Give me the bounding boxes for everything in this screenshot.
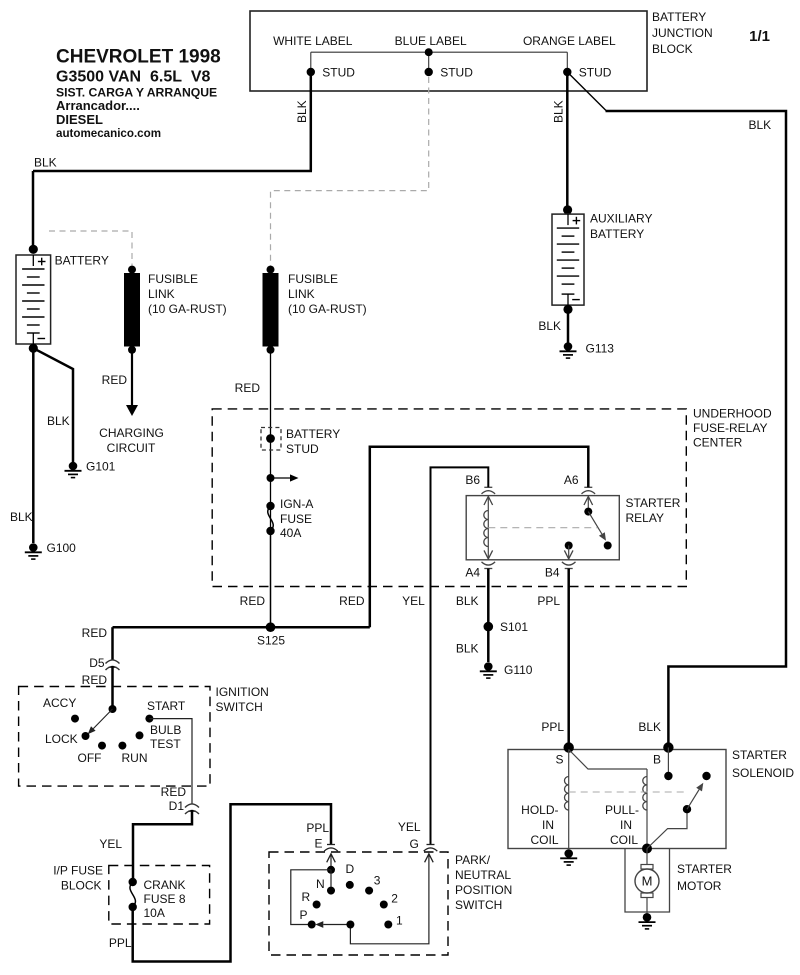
svg-text:SWITCH: SWITCH — [455, 898, 502, 912]
svg-text:CRANK: CRANK — [144, 878, 186, 892]
svg-text:COIL: COIL — [610, 833, 638, 847]
svg-text:A4: A4 — [465, 566, 480, 580]
svg-text:P: P — [300, 908, 308, 922]
svg-text:2: 2 — [391, 892, 398, 906]
svg-text:BLK: BLK — [456, 594, 479, 608]
svg-text:ACCY: ACCY — [43, 696, 76, 710]
svg-text:N: N — [316, 877, 325, 891]
svg-text:LINK: LINK — [288, 287, 315, 301]
svg-text:BLK: BLK — [456, 642, 479, 656]
svg-text:1/1: 1/1 — [749, 28, 770, 45]
svg-text:FUSE 8: FUSE 8 — [144, 892, 186, 906]
svg-text:BLUE LABEL: BLUE LABEL — [395, 34, 467, 48]
svg-text:RED: RED — [82, 673, 108, 687]
svg-text:D5: D5 — [89, 656, 105, 670]
svg-text:S125: S125 — [257, 634, 285, 648]
svg-text:B6: B6 — [465, 473, 480, 487]
svg-text:POSITION: POSITION — [455, 883, 512, 897]
svg-text:LINK: LINK — [148, 287, 175, 301]
svg-text:HOLD-: HOLD- — [521, 803, 558, 817]
svg-text:BATTERY: BATTERY — [286, 427, 340, 441]
svg-text:START: START — [147, 699, 186, 713]
svg-text:(10 GA-RUST): (10 GA-RUST) — [148, 302, 227, 316]
svg-text:STUD: STUD — [440, 65, 473, 79]
svg-text:TEST: TEST — [150, 737, 181, 751]
svg-text:R: R — [302, 890, 311, 904]
svg-text:G101: G101 — [86, 460, 116, 474]
svg-text:B4: B4 — [545, 566, 560, 580]
svg-text:YEL: YEL — [402, 594, 425, 608]
svg-text:FUSE: FUSE — [280, 512, 312, 526]
svg-text:STUD: STUD — [322, 65, 355, 79]
svg-text:BLK: BLK — [10, 510, 33, 524]
svg-text:BLOCK: BLOCK — [652, 42, 693, 56]
svg-text:S: S — [556, 753, 564, 767]
svg-text:FUSIBLE: FUSIBLE — [288, 272, 338, 286]
svg-text:YEL: YEL — [398, 820, 421, 834]
svg-text:YEL: YEL — [99, 837, 122, 851]
svg-text:(10 GA-RUST): (10 GA-RUST) — [288, 302, 367, 316]
svg-text:E: E — [314, 837, 322, 851]
svg-text:ORANGE LABEL: ORANGE LABEL — [523, 34, 616, 48]
svg-text:10A: 10A — [144, 906, 165, 920]
svg-text:PULL-: PULL- — [605, 803, 639, 817]
svg-text:G100: G100 — [47, 541, 77, 555]
svg-text:S101: S101 — [500, 620, 528, 634]
svg-text:BLK: BLK — [749, 118, 772, 132]
svg-text:AUXILIARY: AUXILIARY — [590, 212, 652, 226]
svg-text:RED: RED — [82, 626, 108, 640]
svg-text:A6: A6 — [564, 473, 579, 487]
svg-text:RELAY: RELAY — [626, 511, 664, 525]
svg-text:BATTERY: BATTERY — [590, 227, 644, 241]
svg-text:DIESEL: DIESEL — [56, 112, 103, 127]
svg-text:IN: IN — [542, 818, 554, 832]
svg-text:IN: IN — [620, 818, 632, 832]
svg-text:G: G — [409, 837, 418, 851]
svg-text:JUNCTION: JUNCTION — [652, 26, 713, 40]
svg-text:40A: 40A — [280, 526, 301, 540]
svg-text:G110: G110 — [504, 663, 533, 677]
svg-text:SOLENOID: SOLENOID — [732, 766, 794, 780]
svg-text:PPL: PPL — [109, 936, 132, 950]
svg-text:STARTER: STARTER — [732, 748, 787, 762]
svg-text:FUSIBLE: FUSIBLE — [148, 272, 198, 286]
svg-text:IGN-A: IGN-A — [280, 497, 313, 511]
svg-text:B: B — [653, 753, 661, 767]
svg-text:CHEVROLET 1998: CHEVROLET 1998 — [56, 47, 221, 68]
svg-text:D1: D1 — [169, 799, 185, 813]
svg-text:BLK: BLK — [552, 100, 566, 123]
svg-text:automecanico.com: automecanico.com — [56, 127, 161, 140]
svg-text:D: D — [346, 862, 355, 876]
svg-text:STUD: STUD — [286, 442, 319, 456]
svg-text:I/P FUSE: I/P FUSE — [53, 864, 103, 878]
svg-text:1: 1 — [396, 914, 403, 928]
svg-text:RED: RED — [235, 381, 261, 395]
svg-text:RUN: RUN — [122, 751, 148, 765]
svg-text:PPL: PPL — [537, 594, 560, 608]
svg-text:LOCK: LOCK — [45, 732, 78, 746]
svg-text:CIRCUIT: CIRCUIT — [107, 441, 156, 455]
svg-text:G3500 VAN 6.5L V8: G3500 VAN 6.5L V8 — [56, 69, 211, 86]
svg-text:STARTER: STARTER — [677, 862, 732, 876]
svg-text:BLK: BLK — [638, 720, 661, 734]
svg-text:CHARGING: CHARGING — [99, 426, 164, 440]
svg-text:SWITCH: SWITCH — [216, 700, 263, 714]
svg-text:NEUTRAL: NEUTRAL — [455, 868, 511, 882]
svg-text:M: M — [642, 874, 653, 889]
svg-text:FUSE-RELAY: FUSE-RELAY — [693, 421, 767, 435]
svg-text:BULB: BULB — [150, 723, 181, 737]
svg-text:STARTER: STARTER — [626, 496, 681, 510]
svg-text:BATTERY: BATTERY — [55, 254, 109, 268]
svg-text:BATTERY: BATTERY — [652, 10, 706, 24]
svg-text:BLK: BLK — [295, 100, 309, 123]
svg-text:RED: RED — [240, 594, 266, 608]
svg-text:OFF: OFF — [78, 751, 102, 765]
svg-text:MOTOR: MOTOR — [677, 879, 722, 893]
svg-text:BLK: BLK — [47, 414, 70, 428]
svg-text:PPL: PPL — [306, 821, 329, 835]
svg-text:UNDERHOOD: UNDERHOOD — [693, 407, 772, 421]
svg-text:IGNITION: IGNITION — [216, 685, 269, 699]
svg-text:RED: RED — [102, 373, 128, 387]
svg-text:RED: RED — [339, 594, 365, 608]
svg-text:CENTER: CENTER — [693, 435, 743, 449]
svg-text:PARK/: PARK/ — [455, 853, 491, 867]
svg-text:G113: G113 — [586, 342, 615, 356]
svg-text:RED: RED — [161, 785, 187, 799]
svg-text:Arrancador....: Arrancador.... — [56, 98, 140, 113]
svg-text:STUD: STUD — [579, 65, 612, 79]
svg-text:3: 3 — [374, 874, 381, 888]
svg-text:WHITE LABEL: WHITE LABEL — [273, 34, 353, 48]
svg-text:PPL: PPL — [541, 720, 564, 734]
svg-text:COIL: COIL — [530, 833, 558, 847]
svg-text:BLOCK: BLOCK — [61, 879, 102, 893]
svg-text:BLK: BLK — [34, 156, 57, 170]
svg-text:BLK: BLK — [538, 319, 561, 333]
